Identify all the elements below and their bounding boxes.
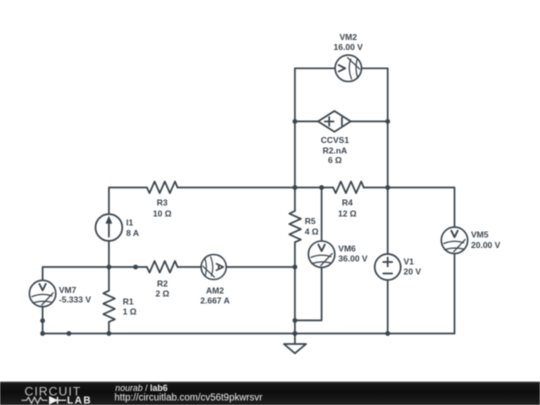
svg-text:-5.333 V: -5.333 V: [59, 294, 91, 304]
wire V1 bottom lead: [387, 280, 389, 334]
wire R5 bottom to ground bus: [294, 242, 296, 333]
footer bar: [0, 382, 540, 405]
resistor R4 body: [333, 182, 364, 194]
wire R5 top lead: [294, 188, 296, 212]
node mid-wire junction: [133, 265, 138, 270]
wire AM2 to center node: [226, 266, 295, 268]
wire I1 bottom lead: [108, 241, 110, 267]
wire VM7 bottom lead: [42, 307, 44, 334]
svg-text:R4: R4: [342, 198, 353, 208]
node VM7 lower junction: [40, 318, 45, 323]
svg-text:20.00 V: 20.00 V: [471, 240, 501, 250]
resistor R2 body: [147, 261, 178, 273]
svg-text:R5: R5: [305, 216, 316, 226]
wire R1 bottom lead: [108, 322, 110, 334]
wire main bus mid segment: [178, 187, 334, 189]
wire R2 to AM2: [178, 266, 202, 268]
node ground bus VM7 junction: [40, 331, 45, 336]
svg-text:16.00 V: 16.00 V: [334, 42, 364, 52]
svg-text:CCVS1: CCVS1: [321, 135, 350, 145]
svg-text:AM2: AM2: [206, 286, 224, 296]
node bus-VM6 junction: [319, 185, 324, 190]
voltmeter VM6: [308, 241, 334, 267]
voltmeter VM2: [335, 55, 361, 81]
node CCVS left junction: [293, 119, 298, 124]
resistor R3 body: [147, 182, 178, 194]
node ground bus center junction: [293, 331, 298, 336]
svg-text:36.00 V: 36.00 V: [338, 253, 368, 263]
wire VM2 left lead: [295, 67, 335, 69]
svg-text:20 V: 20 V: [404, 267, 422, 277]
svg-text:LAB: LAB: [67, 395, 92, 405]
logo resistor zigzag: [22, 397, 48, 403]
svg-text:10 Ω: 10 Ω: [153, 208, 172, 218]
svg-text:R3: R3: [157, 198, 168, 208]
voltage source V1: [375, 254, 401, 280]
node bus-R5 junction: [293, 185, 298, 190]
svg-text:VM5: VM5: [471, 229, 489, 239]
wire CCVS1 left lead: [295, 120, 318, 122]
svg-text:R2: R2: [157, 278, 168, 288]
wire VM5 bottom lead: [454, 254, 456, 334]
wire ground bus y=333.5: [43, 333, 455, 335]
wire mid bus y=267 to R2: [109, 266, 147, 268]
resistor R5 body: [289, 211, 301, 242]
svg-text:I1: I1: [126, 218, 133, 228]
wire right loop vertical to main bus: [387, 121, 389, 187]
node ground bus wire junction: [67, 331, 72, 336]
wire CCVS1 right lead: [351, 120, 388, 122]
wire V1 top lead: [387, 188, 389, 255]
resistor R1 body: [103, 291, 115, 322]
ammeter AM2: [201, 254, 226, 279]
node ground bus R1 junction: [107, 331, 112, 336]
svg-text:V1: V1: [404, 256, 415, 266]
svg-text:6 Ω: 6 Ω: [328, 155, 342, 165]
wire main bus y=187.5 left segment: [109, 188, 147, 214]
wire R1 top lead: [108, 267, 110, 291]
logo diode: [50, 397, 67, 404]
node bus-V1 junction: [385, 185, 390, 190]
svg-text:12 Ω: 12 Ω: [338, 208, 357, 218]
voltmeter VM7: [29, 280, 55, 306]
svg-text:http://circuitlab.com/cv56t9pk: http://circuitlab.com/cv56t9pkwrsvr: [114, 392, 263, 403]
wire VM7 top riser: [43, 267, 109, 281]
wire VM6 top lead: [321, 188, 323, 241]
wire top loop right vertical: [387, 68, 389, 121]
svg-text:2.667 A: 2.667 A: [200, 296, 229, 306]
wire main bus right segment: [364, 188, 455, 228]
node I1-R1-VM7 junction: [107, 265, 112, 270]
svg-text:4 Ω: 4 Ω: [305, 226, 319, 236]
svg-text:R1: R1: [123, 297, 134, 307]
svg-text:1 Ω: 1 Ω: [123, 307, 137, 317]
node CCVS right junction: [385, 119, 390, 124]
wire top loop left vertical: [294, 68, 296, 121]
svg-text:8 A: 8 A: [126, 228, 139, 238]
node ground bus V1 junction: [385, 331, 390, 336]
svg-text:R2.nA: R2.nA: [323, 145, 348, 155]
CCVS U1 (CCVS1) diamond: [318, 111, 351, 132]
voltmeter VM5: [441, 227, 467, 253]
svg-text:VM2: VM2: [339, 32, 357, 42]
current source I1: [96, 214, 123, 241]
ground: [284, 334, 306, 354]
node VM6 bottom junction: [293, 318, 298, 323]
svg-text:VM6: VM6: [338, 243, 356, 253]
node AM2-R5 junction: [293, 265, 298, 270]
wire VM6 bottom lead: [295, 268, 322, 321]
wire VM2 right lead: [362, 67, 388, 69]
wire left loop vertical to main bus: [294, 121, 296, 187]
svg-text:2 Ω: 2 Ω: [155, 288, 169, 298]
